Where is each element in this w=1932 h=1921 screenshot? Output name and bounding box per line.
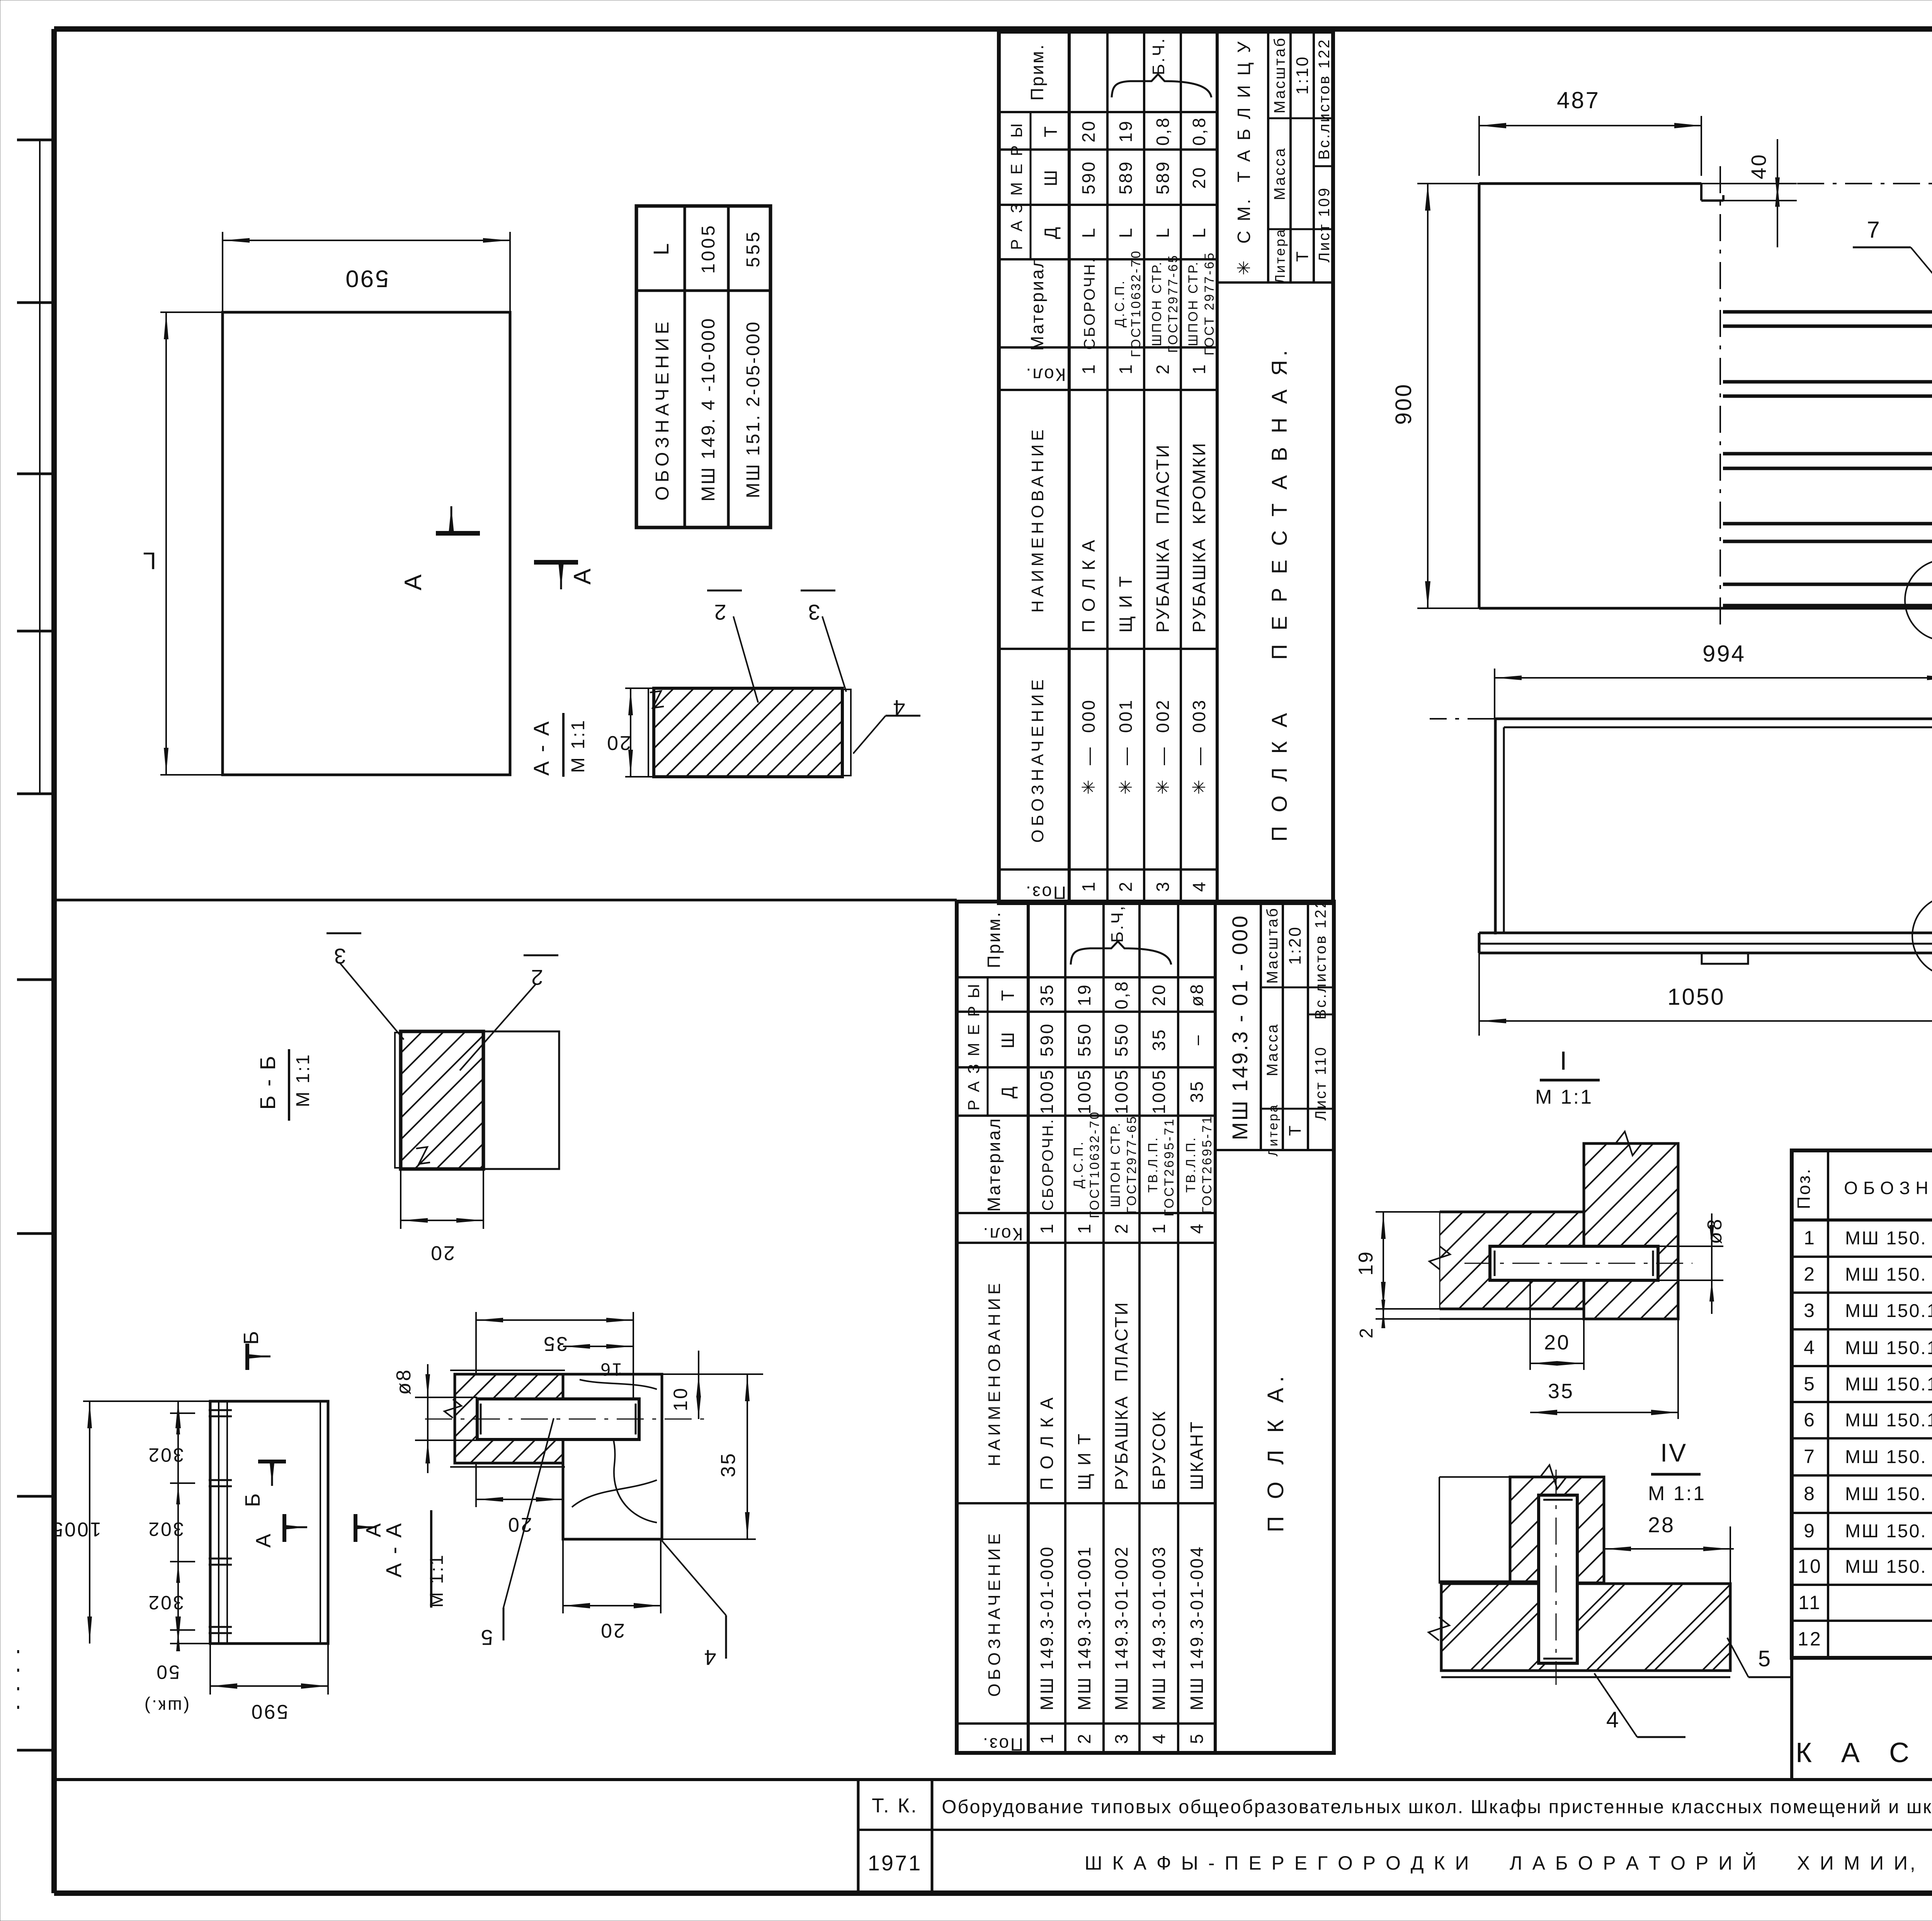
svg-text:302: 302 xyxy=(147,1592,184,1613)
svg-text:1005: 1005 xyxy=(698,223,719,274)
svg-text:590: 590 xyxy=(250,1700,288,1723)
svg-text:МШ 150. 1-01-004: МШ 150. 1-01-004 xyxy=(1845,1557,1932,1577)
side wall vertical hatched xyxy=(1510,1477,1604,1583)
svg-text:4: 4 xyxy=(702,1645,716,1670)
detail circle IV xyxy=(1912,896,1932,976)
svg-text:МШ 149. 4 -10-000: МШ 149. 4 -10-000 xyxy=(698,317,719,502)
svg-text:20: 20 xyxy=(429,1242,455,1264)
svg-text:Т: Т xyxy=(1041,125,1061,137)
svg-text:ОБОЗНАЧЕНИЕ: ОБОЗНАЧЕНИЕ xyxy=(985,1530,1004,1697)
svg-text:L: L xyxy=(1153,226,1173,238)
svg-text:10: 10 xyxy=(1798,1555,1822,1577)
svg-text:Литера: Литера xyxy=(1266,1103,1281,1156)
svg-text:М 1:1: М 1:1 xyxy=(1648,1482,1706,1505)
svg-text:8: 8 xyxy=(1804,1483,1816,1504)
svg-text:ОБОЗНАЧЕНИЕ: ОБОЗНАЧЕНИЕ xyxy=(1028,676,1047,843)
svg-text:М 1:1: М 1:1 xyxy=(1535,1086,1593,1108)
svg-text:Масштаб: Масштаб xyxy=(1264,907,1281,983)
dim 35 right xyxy=(662,1538,756,1540)
svg-text:Оборудование типовых общеобраз: Оборудование типовых общеобразовательных… xyxy=(942,1797,1932,1817)
centerlines xyxy=(1701,183,1932,184)
svg-text:Литера: Литера xyxy=(1272,228,1288,284)
svg-text:П О Л К А: П О Л К А xyxy=(1037,1396,1057,1490)
svg-text:Т: Т xyxy=(1286,1124,1304,1136)
svg-text:ОБОЗНАЧЕНИЕ: ОБОЗНАЧЕНИЕ xyxy=(652,318,673,501)
phi8 right xyxy=(1658,1246,1723,1247)
svg-text:5: 5 xyxy=(1187,1732,1207,1744)
dowel (shkant) xyxy=(477,1399,639,1439)
sheet frame xyxy=(54,26,1932,32)
svg-text:589: 589 xyxy=(1116,160,1136,195)
svg-text:МШ 149.3-01-003: МШ 149.3-01-003 xyxy=(1149,1545,1169,1710)
svg-text:Ш: Ш xyxy=(1041,168,1061,186)
svg-text:28: 28 xyxy=(1648,1513,1675,1537)
svg-text:П О Л К А: П О Л К А xyxy=(1078,538,1099,633)
svg-text:19: 19 xyxy=(1074,983,1094,1006)
svg-text:550: 550 xyxy=(1074,1023,1094,1057)
section A-A marks xyxy=(436,531,480,536)
svg-text:6: 6 xyxy=(1804,1409,1816,1431)
svg-text:Б - Б: Б - Б xyxy=(255,1054,280,1109)
svg-text:МШ 150. 1-01-003: МШ 150. 1-01-003 xyxy=(1845,1521,1932,1542)
svg-text:35: 35 xyxy=(1149,1028,1169,1051)
svg-text:ШПОН СТР.: ШПОН СТР. xyxy=(1186,260,1201,346)
svg-text:Р А З М Е Р Ы: Р А З М Е Р Ы xyxy=(964,982,983,1111)
svg-text:(шк.): (шк.) xyxy=(143,1696,189,1717)
svg-text:ТВ.Л.П.: ТВ.Л.П. xyxy=(1184,1136,1198,1193)
dim 35 bottom xyxy=(1677,1319,1679,1419)
svg-text:50: 50 xyxy=(155,1661,180,1683)
svg-text:Д.С.П.: Д.С.П. xyxy=(1112,279,1127,327)
svg-text:4: 4 xyxy=(1187,1222,1207,1234)
svg-text:Кол.: Кол. xyxy=(982,1224,1023,1244)
svg-text:МШ 150. 1-01-000: МШ 150. 1-01-000 xyxy=(1845,1228,1932,1249)
svg-text:ГОСТ 2977-65: ГОСТ 2977-65 xyxy=(1202,251,1217,355)
dim 19 left xyxy=(1376,1211,1440,1213)
svg-text:МШ 149.3-01-002: МШ 149.3-01-002 xyxy=(1111,1545,1131,1710)
side wall panel hatched xyxy=(1584,1143,1678,1319)
dim 16 xyxy=(563,1346,633,1347)
svg-text:ГОСТ2695-71.: ГОСТ2695-71. xyxy=(1162,1112,1177,1216)
svg-text:ГОСТ10632-70: ГОСТ10632-70 xyxy=(1087,1111,1102,1218)
svg-text:А - А: А - А xyxy=(381,1522,406,1577)
svg-text:Р А З М Е Р Ы: Р А З М Е Р Ы xyxy=(1007,122,1026,250)
svg-text:ШПОН СТР.: ШПОН СТР. xyxy=(1150,260,1164,346)
dim 994 xyxy=(1494,669,1495,719)
svg-text:ø8: ø8 xyxy=(1187,983,1207,1007)
svg-text:Щ И Т: Щ И Т xyxy=(1074,1432,1094,1490)
svg-text:4: 4 xyxy=(1149,1732,1169,1744)
bottom wall band xyxy=(1479,932,1932,934)
svg-text:А: А xyxy=(400,573,427,590)
svg-text:12: 12 xyxy=(1798,1628,1822,1650)
svg-text:Б.Ч,: Б.Ч, xyxy=(1108,905,1127,943)
svg-text:I: I xyxy=(1560,1046,1569,1075)
svg-text:ШПОН СТР.: ШПОН СТР. xyxy=(1108,1121,1123,1207)
svg-text:✳ С М. Т А Б Л И Ц У: ✳ С М. Т А Б Л И Ц У xyxy=(1234,39,1254,276)
svg-text:35: 35 xyxy=(1037,983,1057,1006)
brusok bar hatched xyxy=(1440,1211,1584,1213)
svg-text:Поз.: Поз. xyxy=(981,1734,1023,1754)
svg-text:НАИМЕНОВАНИЕ: НАИМЕНОВАНИЕ xyxy=(1028,426,1047,613)
svg-text:4: 4 xyxy=(1606,1707,1620,1732)
top surface line left xyxy=(1439,1581,1539,1582)
svg-text:590: 590 xyxy=(344,265,388,292)
svg-text:Масса: Масса xyxy=(1271,147,1288,200)
svg-text:1: 1 xyxy=(1804,1227,1816,1249)
svg-text:МШ 151. 2-05-000: МШ 151. 2-05-000 xyxy=(743,320,764,498)
svg-text:МШ 150. 1-01-002: МШ 150. 1-01-002 xyxy=(1845,1484,1932,1504)
svg-text:1005: 1005 xyxy=(1111,1069,1131,1114)
svg-text:L: L xyxy=(1189,226,1209,238)
svg-text:0,8: 0,8 xyxy=(1153,116,1173,146)
svg-text:2: 2 xyxy=(1074,1732,1094,1744)
svg-text:ШКАНТ: ШКАНТ xyxy=(1187,1420,1207,1490)
spec table 2 (Polka, rotated) xyxy=(957,898,1334,1754)
svg-text:✳ — 001: ✳ — 001 xyxy=(1116,699,1136,795)
svg-text:ø8: ø8 xyxy=(393,1368,415,1395)
svg-text:М 1:1: М 1:1 xyxy=(568,719,588,773)
svg-text:СБОРОЧН.: СБОРОЧН. xyxy=(1039,1118,1056,1211)
svg-text:–: – xyxy=(1187,1034,1207,1045)
dim 2 left xyxy=(1376,1318,1440,1320)
svg-text:✳ — 002: ✳ — 002 xyxy=(1153,699,1173,795)
main title block xyxy=(54,1778,1932,1781)
svg-text:35: 35 xyxy=(717,1452,740,1477)
phi8 dim xyxy=(415,1397,477,1398)
svg-text:МШ 150.1 -01-014: МШ 150.1 -01-014 xyxy=(1845,1410,1932,1431)
svg-text:Д.С.П.: Д.С.П. xyxy=(1071,1140,1086,1188)
svg-text:Ш К А Ф Ы - П Е Р Е Г О Р О Д: Ш К А Ф Ы - П Е Р Е Г О Р О Д К И Л А Б … xyxy=(1085,1852,1932,1874)
section mark B top xyxy=(245,1344,249,1370)
svg-text:994: 994 xyxy=(1702,641,1746,667)
dim 40 xyxy=(1723,183,1797,184)
panel outline (Polka perestavnaya, rotated view) xyxy=(223,312,510,775)
svg-text:СБОРОЧН.: СБОРОЧН. xyxy=(1081,257,1098,350)
svg-text:✳ — 003: ✳ — 003 xyxy=(1189,699,1209,795)
svg-text:20: 20 xyxy=(1078,119,1099,142)
svg-text:МШ 150.1 -01-012: МШ 150.1 -01-012 xyxy=(1845,1338,1932,1358)
svg-text:9: 9 xyxy=(1804,1520,1816,1542)
svg-text:4: 4 xyxy=(1189,880,1209,892)
svg-text:М 1:1: М 1:1 xyxy=(427,1553,447,1608)
svg-text:19: 19 xyxy=(1116,119,1136,142)
svg-text:1971: 1971 xyxy=(868,1851,922,1875)
svg-text:10: 10 xyxy=(670,1387,691,1411)
svg-text:П О Л К А.: П О Л К А. xyxy=(1263,1371,1288,1532)
svg-text:20: 20 xyxy=(1149,983,1169,1006)
shelves xyxy=(1723,310,1932,314)
svg-text:1: 1 xyxy=(1116,363,1136,374)
svg-text:3: 3 xyxy=(1153,880,1173,892)
big parts table (Kasseta) xyxy=(1792,1150,1932,1658)
svg-text:1: 1 xyxy=(1149,1222,1169,1234)
dim 1050 xyxy=(1478,953,1480,1036)
svg-text:ТВ.Л.П.: ТВ.Л.П. xyxy=(1146,1136,1160,1193)
fold marks left margin xyxy=(17,139,54,141)
dim 20 left-bottom xyxy=(475,1463,477,1507)
svg-text:Лист 110: Лист 110 xyxy=(1312,1046,1329,1121)
dim 10 right xyxy=(662,1373,763,1375)
svg-text:ГОСТ2695-71: ГОСТ2695-71 xyxy=(1200,1115,1214,1214)
svg-text:Д: Д xyxy=(998,1085,1018,1098)
svg-text:1005: 1005 xyxy=(50,1518,101,1540)
front view outline xyxy=(1478,184,1481,608)
dim L (rotated) xyxy=(160,311,223,313)
svg-text:L: L xyxy=(1116,226,1136,238)
svg-text:Ш: Ш xyxy=(998,1031,1018,1048)
spec table 1 (Polka perestavnaya, rotated) xyxy=(999,32,1333,903)
svg-text:7: 7 xyxy=(1804,1446,1816,1467)
svg-text:35: 35 xyxy=(1548,1380,1574,1403)
svg-text:Т: Т xyxy=(998,989,1018,1001)
svg-text:20: 20 xyxy=(605,732,631,754)
svg-text:А: А xyxy=(569,567,596,584)
svg-text:МШ 149.3-01-004: МШ 149.3-01-004 xyxy=(1187,1545,1207,1710)
svg-text:19: 19 xyxy=(1355,1250,1377,1276)
svg-text:ГОСТ2977-65: ГОСТ2977-65 xyxy=(1124,1115,1139,1214)
svg-text:1:10: 1:10 xyxy=(1293,55,1312,95)
svg-text:3: 3 xyxy=(1111,1732,1131,1744)
separator line xyxy=(54,899,957,902)
svg-text:7: 7 xyxy=(1867,217,1881,243)
dim 590 below xyxy=(209,1644,211,1695)
svg-text:✳ — 000: ✳ — 000 xyxy=(1078,699,1099,795)
svg-text:4: 4 xyxy=(1804,1337,1816,1358)
svg-text:ГОСТ10632-70: ГОСТ10632-70 xyxy=(1129,250,1143,357)
svg-text:1: 1 xyxy=(1078,363,1099,374)
svg-text:35: 35 xyxy=(542,1332,568,1355)
svg-text:Т. К.: Т. К. xyxy=(872,1795,918,1817)
left edge extension down to title block xyxy=(1790,1658,1793,1780)
dim 1005 xyxy=(89,1401,90,1644)
svg-text:5: 5 xyxy=(1758,1646,1772,1671)
svg-text:Материал: Материал xyxy=(984,1117,1004,1211)
svg-text:3: 3 xyxy=(332,944,346,968)
svg-text:Б.Ч.: Б.Ч. xyxy=(1149,37,1168,75)
svg-text:1: 1 xyxy=(1078,880,1099,892)
svg-text:1: 1 xyxy=(1037,1732,1057,1744)
long panel (Polka) rotated view xyxy=(210,1401,328,1644)
dim 900 xyxy=(1417,183,1479,184)
svg-text:Материал: Материал xyxy=(1027,256,1047,351)
dim 20 bottom xyxy=(562,1539,564,1613)
detail circle I xyxy=(1905,560,1932,641)
svg-text:РУБАШКА КРОМКИ: РУБАШКА КРОМКИ xyxy=(1189,442,1209,633)
svg-text:А: А xyxy=(252,1532,275,1548)
dim 20 xyxy=(625,687,654,689)
svg-text:0,8: 0,8 xyxy=(1111,980,1131,1009)
svg-text:МШ 150. 1-01-010: МШ 150. 1-01-010 xyxy=(1845,1264,1932,1285)
svg-text:2: 2 xyxy=(529,965,543,990)
svg-text:МШ 150.1 -01-011: МШ 150.1 -01-011 xyxy=(1845,1301,1932,1321)
svg-text:2: 2 xyxy=(1116,880,1136,892)
svg-text:0,8: 0,8 xyxy=(1189,116,1209,146)
svg-text:Б: Б xyxy=(241,1492,264,1507)
svg-text:Вс.листов 122: Вс.листов 122 xyxy=(1316,38,1333,160)
svg-text:20: 20 xyxy=(1189,166,1209,189)
svg-text:МШ 150.1 -01-013: МШ 150.1 -01-013 xyxy=(1845,1374,1932,1395)
dowel vertical xyxy=(1539,1495,1577,1663)
svg-text:А - А: А - А xyxy=(529,720,553,776)
dim 487 xyxy=(1478,116,1480,176)
svg-text:IV: IV xyxy=(1660,1438,1687,1467)
svg-text:2: 2 xyxy=(1153,363,1173,374)
dim 20 bottom xyxy=(1529,1280,1531,1370)
svg-text:ГОСТ2977-65: ГОСТ2977-65 xyxy=(1166,254,1180,353)
svg-text:L: L xyxy=(1078,226,1099,238)
svg-text:К А С С Е Т А.: К А С С Е Т А. xyxy=(1796,1737,1932,1768)
svg-text:5: 5 xyxy=(1804,1373,1816,1395)
dowel xyxy=(1490,1246,1658,1280)
brusok (wood grain block) xyxy=(563,1374,662,1539)
svg-text:1:20: 1:20 xyxy=(1286,926,1304,965)
svg-text:589: 589 xyxy=(1153,160,1173,195)
svg-text:Прим.: Прим. xyxy=(1027,43,1047,101)
svg-text:Лист 109: Лист 109 xyxy=(1316,187,1333,263)
extension lines xyxy=(1430,718,1495,720)
svg-text:302: 302 xyxy=(147,1444,184,1466)
svg-text:ø8: ø8 xyxy=(1704,1218,1726,1244)
dim 35 top xyxy=(475,1312,477,1374)
svg-text:2: 2 xyxy=(713,600,726,624)
svg-text:Щ И Т: Щ И Т xyxy=(1116,575,1136,633)
svg-text:900: 900 xyxy=(1391,383,1416,425)
svg-text:550: 550 xyxy=(1111,1023,1131,1057)
svg-text:Прим.: Прим. xyxy=(984,911,1004,968)
svg-text:Д: Д xyxy=(1041,225,1061,239)
dowel tick marks xyxy=(209,1409,232,1411)
svg-text:590: 590 xyxy=(1037,1023,1057,1057)
top band xyxy=(1495,718,1932,720)
svg-text:ОБОЗНАЧЕНИЕ: ОБОЗНАЧЕНИЕ xyxy=(1844,1178,1932,1198)
svg-text:35: 35 xyxy=(1187,1080,1207,1103)
small table Oboznachenie/L (rotated) xyxy=(636,206,770,527)
svg-text:МШ 149.3 - 01 - 000: МШ 149.3 - 01 - 000 xyxy=(1228,914,1252,1140)
svg-text:Масштаб: Масштаб xyxy=(1271,36,1288,113)
svg-text:302: 302 xyxy=(147,1518,184,1540)
dim chain 302 x4 + 50 xyxy=(83,1400,210,1402)
svg-text:555: 555 xyxy=(743,230,764,267)
svg-text:Вс.листов 122: Вс.листов 122 xyxy=(1312,898,1329,1020)
svg-text:П О Л К А П Е Р Е С Т А В: П О Л К А П Е Р Е С Т А В Н А Я. xyxy=(1267,346,1291,842)
svg-text:20: 20 xyxy=(1544,1331,1570,1354)
svg-text:2: 2 xyxy=(1111,1222,1131,1234)
svg-text:1005: 1005 xyxy=(1074,1069,1094,1114)
svg-text:Кол.: Кол. xyxy=(1025,365,1066,385)
svg-text:2: 2 xyxy=(1356,1327,1377,1339)
svg-text:М 1:1: М 1:1 xyxy=(293,1053,313,1107)
side bands xyxy=(1494,719,1497,934)
bottom thin lines xyxy=(1440,1318,1584,1320)
svg-text:20: 20 xyxy=(599,1619,625,1642)
svg-text:Масса: Масса xyxy=(1264,1023,1281,1076)
svg-text:МШ 149.3-01-001: МШ 149.3-01-001 xyxy=(1074,1545,1094,1710)
dim 28 xyxy=(1730,1526,1731,1584)
svg-text:2: 2 xyxy=(1804,1263,1816,1285)
svg-text:МШ 150. 1-01-001: МШ 150. 1-01-001 xyxy=(1845,1447,1932,1467)
polka bar (hatched) xyxy=(455,1374,563,1463)
svg-text:1005: 1005 xyxy=(1037,1069,1057,1114)
svg-text:Т: Т xyxy=(1293,250,1312,262)
svg-text:РУБАШКА ПЛАСТИ: РУБАШКА ПЛАСТИ xyxy=(1111,1301,1131,1490)
svg-text:1050: 1050 xyxy=(1667,984,1725,1010)
svg-text:L: L xyxy=(141,547,156,574)
svg-text:L: L xyxy=(649,242,673,255)
dim 20 (B-B) xyxy=(400,1169,401,1229)
svg-text:БРУСОК: БРУСОК xyxy=(1149,1410,1169,1490)
svg-text:РУБАШКА ПЛАСТИ: РУБАШКА ПЛАСТИ xyxy=(1153,443,1173,633)
svg-text:3: 3 xyxy=(1804,1300,1816,1321)
svg-text:НАИМЕНОВАНИЕ: НАИМЕНОВАНИЕ xyxy=(985,1280,1004,1467)
svg-text:1: 1 xyxy=(1074,1222,1094,1234)
svg-text:Поз.: Поз. xyxy=(1794,1167,1814,1209)
svg-text:1: 1 xyxy=(1189,363,1209,374)
svg-text:40: 40 xyxy=(1747,153,1770,179)
svg-text:1: 1 xyxy=(1037,1222,1057,1234)
svg-text:590: 590 xyxy=(1078,160,1099,195)
bottom wall hatched xyxy=(1441,1584,1730,1671)
svg-text:11: 11 xyxy=(1798,1592,1821,1613)
svg-text:Б: Б xyxy=(240,1329,263,1344)
svg-text:1005: 1005 xyxy=(1149,1069,1169,1114)
svg-text:487: 487 xyxy=(1557,87,1600,113)
notch xyxy=(1702,953,1748,964)
dim 590 (rotated 180) xyxy=(222,232,223,312)
svg-text:5: 5 xyxy=(479,1625,493,1650)
svg-text:МШ 149.3-01-000: МШ 149.3-01-000 xyxy=(1037,1545,1057,1710)
svg-text:3: 3 xyxy=(806,600,820,624)
svg-text:16: 16 xyxy=(599,1360,622,1380)
section marks B/A inner xyxy=(258,1460,286,1463)
